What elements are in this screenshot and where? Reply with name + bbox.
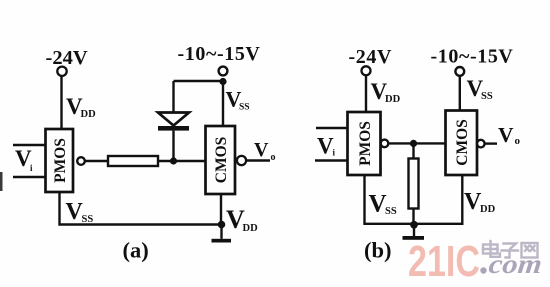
watermark logo 21IC bbox=[408, 237, 544, 286]
svg-text:(a): (a) bbox=[123, 238, 149, 263]
svg-text:SS: SS bbox=[82, 214, 94, 225]
wire: PMOS VSS bottom rail (a) bbox=[60, 192, 222, 225]
diode D1 (a) bbox=[158, 81, 189, 161]
svg-text:DD: DD bbox=[480, 204, 496, 215]
wire: terminal junction to diode anode (a) bbox=[174, 80, 224, 82]
label Vi (a) bbox=[15, 146, 33, 173]
ground symbol (b) bbox=[403, 225, 425, 240]
wire: bubble to resistor R1 (a) bbox=[85, 160, 108, 162]
junction node A (a) bbox=[170, 157, 177, 164]
stray scan mark left edge bbox=[0, 172, 3, 191]
junction node B (b) bbox=[410, 140, 417, 147]
PMOS block U3 (b) bbox=[348, 112, 381, 175]
supply terminal -10~-15V (a) bbox=[219, 67, 228, 76]
wire: resistor to CMOS input (a) bbox=[158, 160, 206, 162]
svg-text:-10~-15V: -10~-15V bbox=[431, 46, 514, 68]
svg-text:V: V bbox=[254, 139, 269, 161]
svg-text:(b): (b) bbox=[364, 238, 392, 263]
wire: PMOS output to CMOS input (b) bbox=[388, 142, 445, 144]
svg-text:PMOS: PMOS bbox=[357, 121, 374, 166]
CJK char wang bbox=[522, 243, 538, 258]
input wire bottom (b) bbox=[315, 159, 348, 161]
svg-text:PMOS: PMOS bbox=[52, 138, 69, 183]
wire: junction to resistor R2 (b) bbox=[412, 143, 414, 158]
label VDD top (a) bbox=[66, 94, 96, 120]
svg-text:CMOS: CMOS bbox=[213, 137, 230, 184]
svg-text:SS: SS bbox=[481, 91, 493, 102]
wire: terminal to CMOS top (b) bbox=[459, 76, 461, 111]
wire: terminal junction down to CMOS VSS pin (a) bbox=[222, 82, 224, 127]
svg-text:DD: DD bbox=[81, 109, 97, 120]
svg-text:DD: DD bbox=[385, 94, 401, 105]
CJK char zi bbox=[502, 244, 519, 258]
label VSS bottom (b) bbox=[369, 191, 397, 218]
label VDD bottom (a) bbox=[226, 205, 258, 234]
label VSS top (a) bbox=[226, 87, 250, 113]
label VSS bottom (a) bbox=[66, 199, 94, 225]
svg-text:-24V: -24V bbox=[349, 46, 393, 68]
input wire top (b) bbox=[316, 127, 348, 129]
junction dot ground node (b) bbox=[410, 221, 418, 229]
output wire (a) bbox=[246, 159, 270, 161]
svg-text:SS: SS bbox=[239, 103, 250, 113]
label Vo (a) bbox=[254, 139, 276, 163]
supply terminal -24V (b) bbox=[362, 66, 371, 75]
wire: terminal to PMOS top (b) bbox=[365, 75, 367, 112]
CMOS block U2 (a) bbox=[206, 126, 236, 194]
logo dot before com bbox=[480, 267, 486, 273]
supply terminal -10~-15V (b) bbox=[455, 67, 464, 76]
wire: PMOS bottom rail left (b) bbox=[365, 175, 414, 224]
svg-text:o: o bbox=[271, 152, 276, 163]
wire: -24V terminal to PMOS VDD pin (a) bbox=[60, 76, 62, 130]
wire: CMOS bottom to ground node (a) bbox=[220, 194, 222, 224]
svg-text:SS: SS bbox=[385, 206, 397, 217]
svg-text:V: V bbox=[317, 134, 334, 159]
PMOS output bubble (b) bbox=[381, 140, 389, 148]
label VDD bottom (b) bbox=[464, 189, 496, 215]
svg-text:-24V: -24V bbox=[46, 47, 88, 69]
svg-text:-10~-15V: -10~-15V bbox=[178, 43, 261, 65]
resistor R2 (b) bbox=[409, 159, 419, 209]
svg-text:V: V bbox=[369, 191, 387, 218]
ground symbol (a) bbox=[212, 225, 232, 243]
junction dot ground node (a) bbox=[218, 221, 226, 229]
junction dot below terminal (a) bbox=[219, 78, 226, 85]
logo CJK dian-zi-wang (drawn strokes) bbox=[483, 241, 538, 258]
CMOS output bubble (b) bbox=[477, 140, 485, 148]
label Vi (b) bbox=[317, 134, 336, 159]
label VSS top (b) bbox=[467, 76, 493, 102]
svg-text:21IC: 21IC bbox=[408, 237, 480, 286]
wire: CMOS bottom rail right (b) bbox=[414, 175, 463, 224]
svg-text:V: V bbox=[498, 123, 514, 147]
input wire top (a) bbox=[13, 144, 46, 146]
label VDD top (b) bbox=[371, 79, 401, 105]
svg-text:CMOS: CMOS bbox=[454, 119, 471, 166]
wire: resistor bottom to ground node (b) bbox=[412, 209, 414, 225]
PMOS block U1 (a) bbox=[46, 129, 74, 192]
svg-text:DD: DD bbox=[243, 223, 259, 234]
CMOS block U4 (b) bbox=[446, 111, 478, 176]
input wire bottom (a) bbox=[13, 176, 46, 178]
label Vo (b) bbox=[498, 123, 521, 147]
resistor R1 (a) bbox=[108, 156, 158, 166]
PMOS output bubble (a) bbox=[77, 157, 85, 165]
CMOS output bubble (a) bbox=[237, 156, 246, 165]
svg-text:o: o bbox=[515, 135, 521, 147]
output wire (b) bbox=[485, 142, 497, 144]
supply terminal -24V (a) bbox=[57, 67, 66, 76]
CJK char dian bbox=[483, 241, 500, 257]
